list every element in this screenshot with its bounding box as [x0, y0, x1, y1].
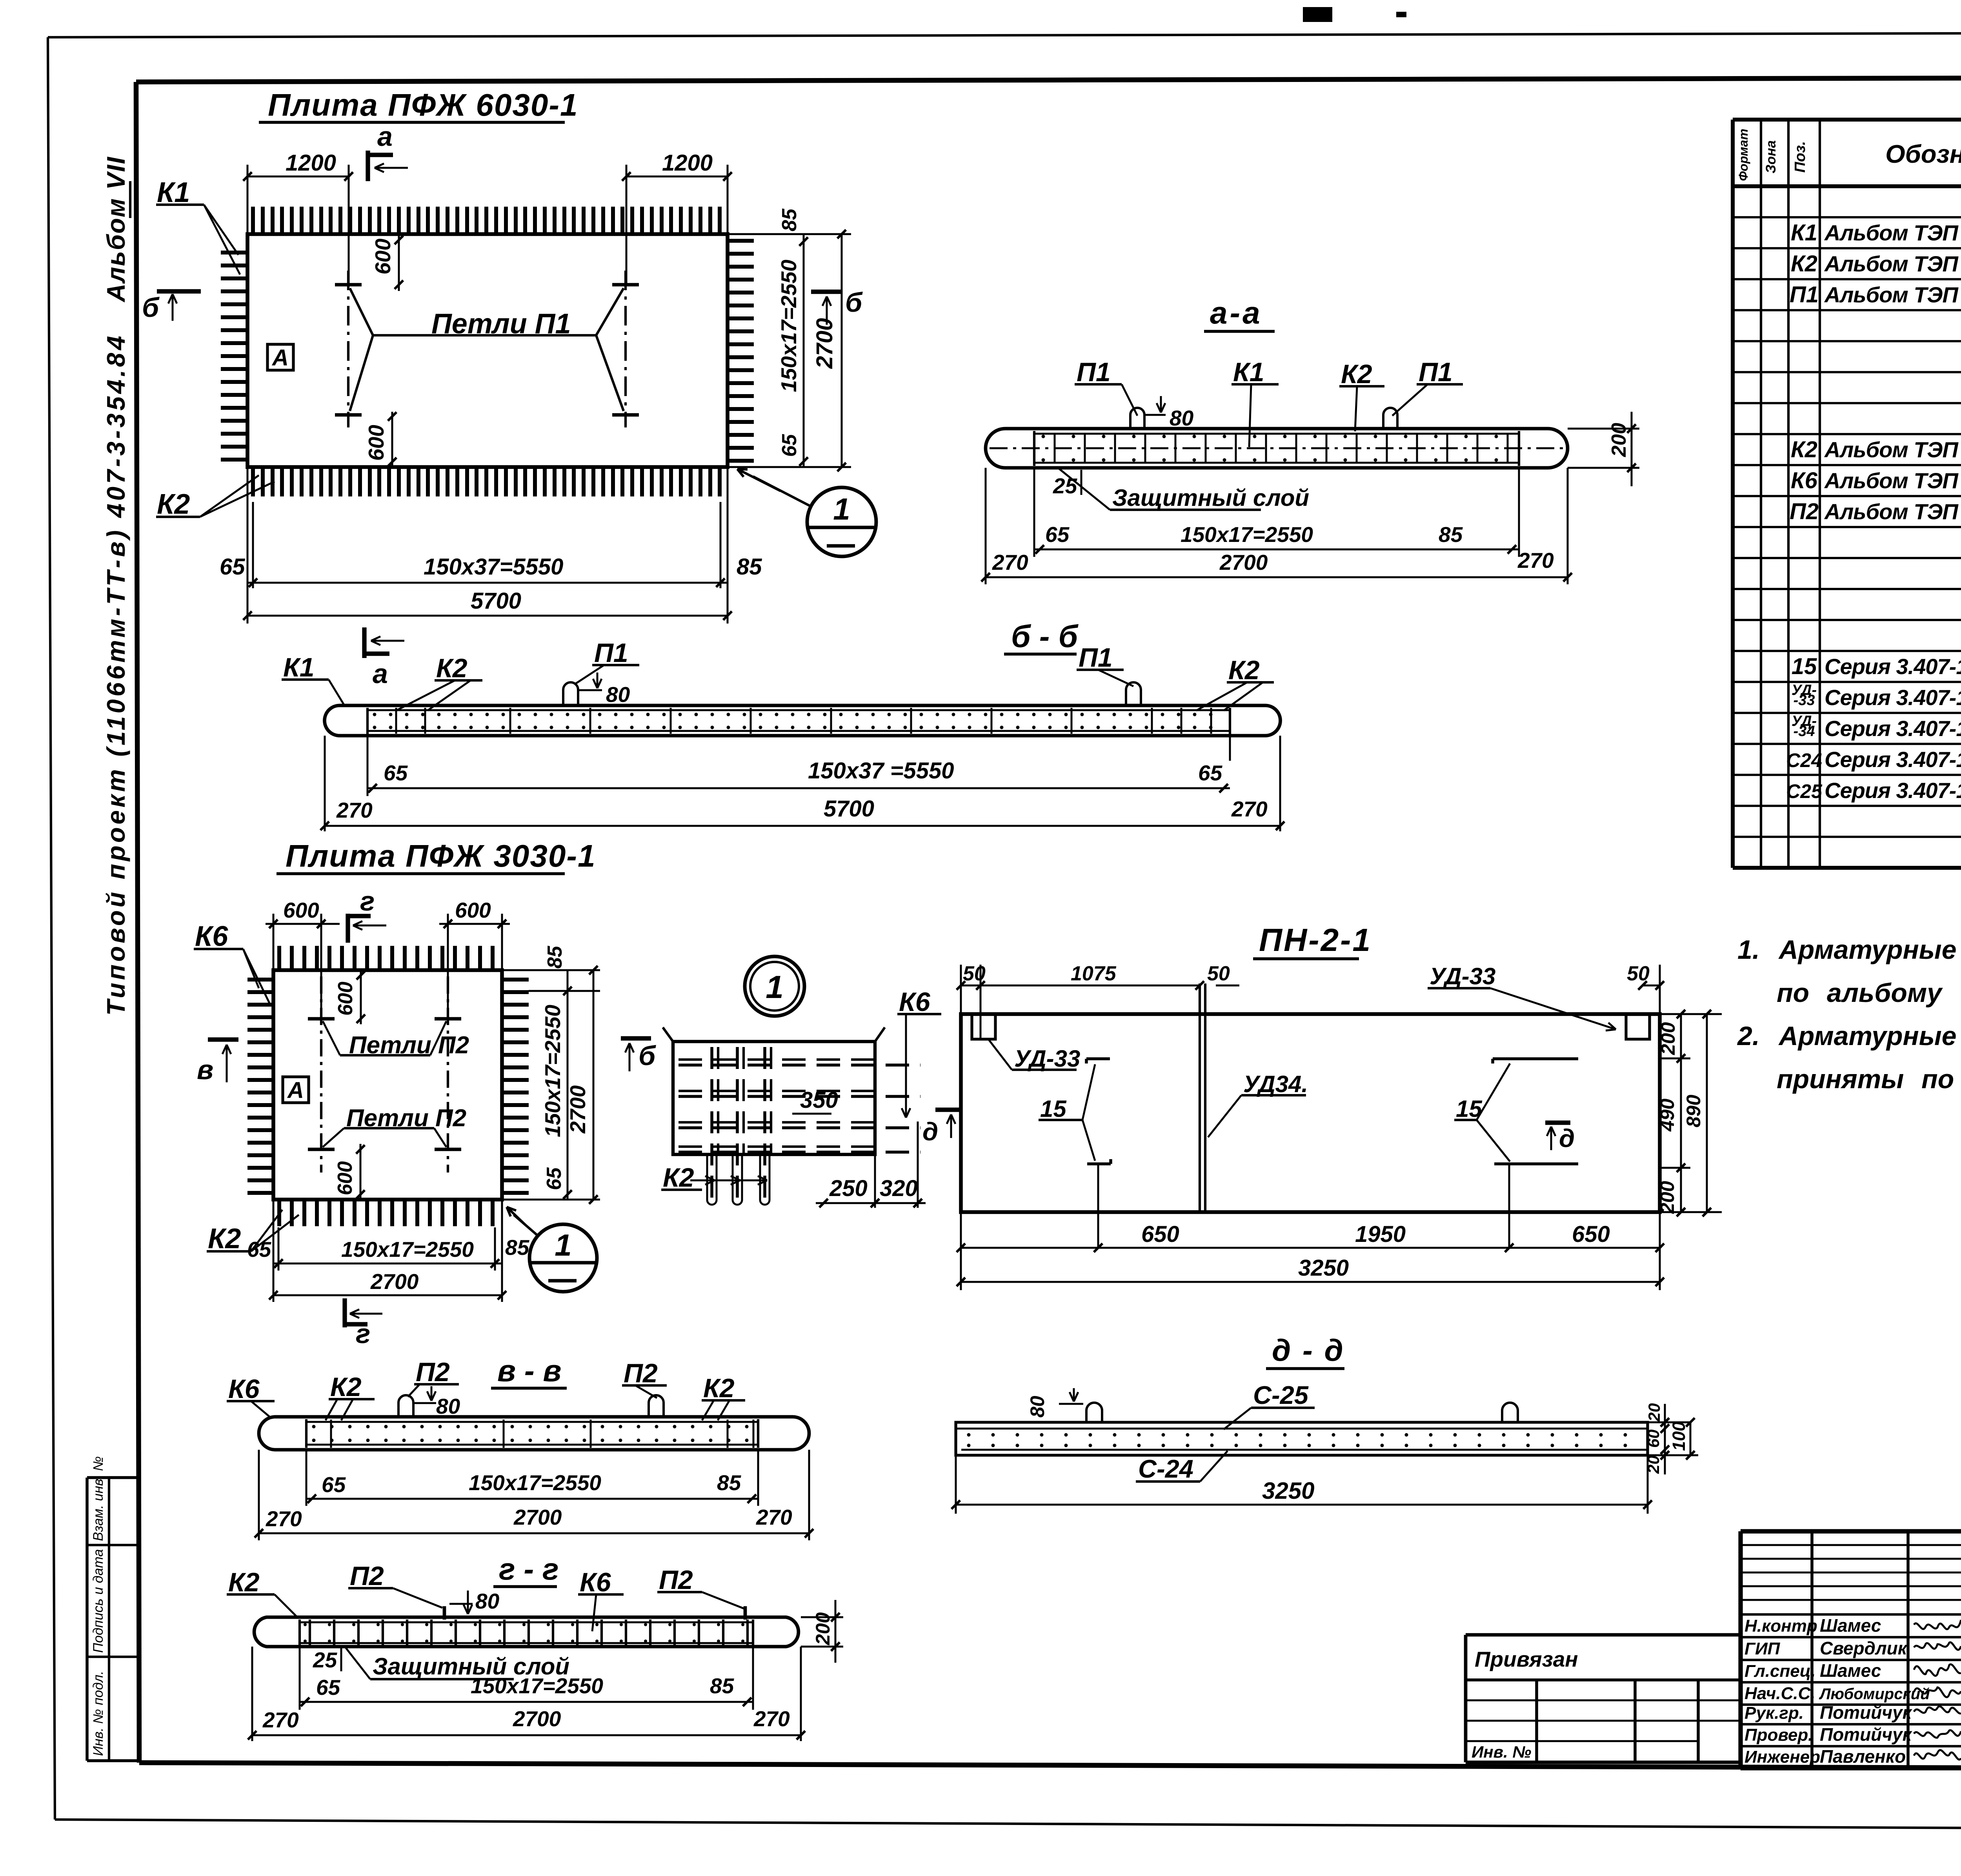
d-d dim 80 left [1059, 1403, 1083, 1405]
dim 600 top [398, 234, 400, 291]
a-a dim 80 [1144, 414, 1166, 416]
svg-text:Зона: Зона [1763, 140, 1779, 173]
svg-text:Формат: Формат [1736, 129, 1750, 181]
svg-text:по альбому ТЭПа № 71147-: по альбому ТЭПа № 71147-С. [1777, 978, 1961, 1008]
svg-text:Инженер: Инженер [1745, 1747, 1820, 1767]
dim 600 mid-bottom [360, 1144, 362, 1200]
svg-text:д: д [1559, 1124, 1575, 1153]
svg-text:Потийчук: Потийчук [1820, 1702, 1913, 1723]
svg-text:К1: К1 [1791, 220, 1817, 245]
svg-text:270: 270 [1231, 797, 1268, 821]
svg-text:Альбом VII: Альбом VII [102, 156, 130, 303]
section mark a top [366, 151, 370, 181]
svg-text:80: 80 [436, 1394, 460, 1418]
detail 1 circle header [745, 956, 804, 1016]
svg-text:1075: 1075 [1071, 962, 1117, 985]
svg-text:65: 65 [220, 554, 245, 580]
svg-text:д: д [922, 1117, 938, 1146]
svg-text:П1: П1 [594, 638, 628, 668]
svg-text:П2: П2 [350, 1561, 384, 1591]
svg-text:Плита ПФЖ 6030-1: Плита ПФЖ 6030-1 [268, 87, 578, 122]
svg-text:Любомирский: Любомирский [1819, 1685, 1930, 1703]
hatch bottom 3030 [277, 1200, 281, 1226]
svg-text:С24: С24 [1786, 749, 1822, 771]
d-d dim 3250 [955, 1455, 957, 1514]
detail circle 1 at 6030 [807, 487, 876, 556]
left margin bottom stamp table [85, 1478, 89, 1761]
svg-text:2700: 2700 [1219, 550, 1268, 574]
a-a bottom dims [1033, 468, 1035, 557]
svg-text:Серия 3.407-102 л.64: Серия 3.407-102 л.64 [1825, 685, 1961, 710]
svg-text:Поз.: Поз. [1792, 141, 1808, 173]
svg-text:К6: К6 [195, 921, 228, 952]
rebar hatch left [221, 251, 247, 254]
svg-text:К2: К2 [1791, 437, 1817, 462]
svg-text:П2: П2 [1790, 499, 1819, 524]
svg-text:Обозначение: Обозначение [1885, 140, 1961, 168]
svg-text:С-24: С-24 [1138, 1454, 1193, 1483]
svg-text:25: 25 [313, 1648, 338, 1672]
svg-text:Серия 3.407-102 л.54: Серия 3.407-102 л.54 [1825, 778, 1961, 803]
svg-text:5700: 5700 [471, 588, 521, 614]
svg-text:г: г [360, 886, 375, 916]
svg-text:270: 270 [753, 1707, 790, 1731]
svg-text:320: 320 [880, 1176, 918, 1201]
svg-text:а: а [373, 658, 388, 689]
svg-text:270: 270 [336, 798, 373, 822]
svg-text:К2: К2 [436, 653, 468, 683]
b-b cage [366, 708, 369, 734]
svg-text:приняты по серии 3. 407-: приняты по серии 3. 407-102. [1777, 1064, 1961, 1094]
PN-2-1 panel [961, 1014, 1660, 1212]
svg-text:1: 1 [766, 969, 784, 1005]
svg-text:600: 600 [371, 238, 395, 274]
svg-text:2700: 2700 [513, 1707, 561, 1731]
g-g loop stubs P2 [443, 1606, 446, 1620]
svg-text:Инв. № подл.: Инв. № подл. [91, 1671, 106, 1756]
svg-text:К2: К2 [1791, 251, 1817, 276]
svg-text:600: 600 [364, 425, 388, 461]
callout petli P2 lower [344, 1127, 434, 1129]
svg-text:А: А [287, 1078, 304, 1103]
svg-text:65: 65 [1045, 522, 1070, 547]
d-d right dims [1648, 1422, 1690, 1423]
right dims 6030 [728, 233, 851, 235]
mark g top [346, 914, 350, 943]
b-b bottom dims [367, 736, 369, 761]
PN-2-1 right dims [1660, 1013, 1722, 1015]
svg-text:1200: 1200 [662, 150, 713, 176]
svg-text:Альбом ТЭП 71147-с, л.18: Альбом ТЭП 71147-с, л.18 [1824, 468, 1961, 493]
mark d left (detail) [935, 1107, 961, 1112]
svg-text:П2: П2 [416, 1357, 450, 1387]
svg-text:Провер.: Провер. [1745, 1725, 1813, 1745]
svg-text:П1: П1 [1419, 357, 1453, 387]
loops P2 axes [320, 976, 322, 1172]
svg-text:200: 200 [1656, 1181, 1678, 1214]
hatch top 3030 [277, 946, 281, 970]
v-v cage [305, 1419, 307, 1448]
mark v right [621, 1036, 651, 1040]
d-d loops [1086, 1403, 1102, 1423]
svg-text:Шамес: Шамес [1820, 1615, 1881, 1636]
g-g dim 80 [449, 1603, 473, 1605]
svg-text:200: 200 [1657, 1022, 1679, 1055]
svg-text:С-25: С-25 [1253, 1381, 1309, 1409]
svg-text:Шамес: Шамес [1820, 1660, 1881, 1681]
loops P1 axes [347, 271, 349, 427]
svg-text:3250: 3250 [1262, 1478, 1314, 1504]
g-g member [254, 1617, 799, 1647]
rebar hatch bottom [251, 467, 255, 496]
svg-text:80: 80 [475, 1589, 500, 1613]
d-d slab [956, 1422, 1648, 1455]
svg-text:85: 85 [1439, 522, 1463, 547]
svg-text:К2: К2 [330, 1372, 362, 1402]
mark b right 6030 [811, 289, 842, 294]
svg-text:Нач.С.С.: Нач.С.С. [1745, 1684, 1815, 1703]
svg-text:К6: К6 [1791, 468, 1818, 493]
svg-text:80: 80 [1026, 1396, 1048, 1418]
svg-text:П1: П1 [1079, 643, 1113, 673]
v-v loops P2 [398, 1395, 413, 1418]
b-b dim 80 [579, 689, 602, 691]
svg-text:85: 85 [778, 208, 801, 231]
svg-text:150х17=2550: 150х17=2550 [1181, 522, 1313, 547]
svg-text:К2: К2 [228, 1567, 260, 1597]
sheet outer border [48, 32, 1961, 37]
svg-text:85: 85 [717, 1471, 742, 1495]
svg-text:П2: П2 [624, 1358, 658, 1388]
rebar hatch top [251, 207, 255, 234]
svg-text:2700: 2700 [370, 1269, 419, 1294]
svg-text:П2: П2 [659, 1565, 693, 1595]
svg-text:270: 270 [262, 1708, 299, 1732]
a-a dim 200 right [1568, 428, 1639, 430]
box A mark 3030 [283, 1077, 309, 1103]
b-b member [325, 705, 1281, 736]
svg-text:20: 20 [1645, 1403, 1663, 1422]
g-g dim 200 right [801, 1616, 843, 1618]
detail 1 body [673, 1042, 875, 1154]
svg-text:Потийчук: Потийчук [1820, 1724, 1913, 1745]
svg-text:270: 270 [992, 550, 1028, 574]
dim 1200 right [626, 165, 628, 285]
svg-text:65: 65 [543, 1167, 566, 1190]
svg-text:150х17=2550: 150х17=2550 [469, 1471, 601, 1495]
v-v dim 80 [415, 1402, 436, 1404]
svg-text:600: 600 [334, 982, 357, 1016]
svg-text:П1: П1 [1077, 357, 1111, 387]
svg-text:УД-33: УД-33 [1014, 1045, 1080, 1072]
svg-text:Типовой проект (11066т: Типовой проект (11066тм-ТТ-в) 407-3-354.… [102, 333, 130, 1016]
svg-text:270: 270 [756, 1505, 792, 1529]
svg-text:350: 350 [800, 1087, 838, 1113]
loops callout [373, 334, 596, 336]
v-v member [259, 1417, 809, 1450]
svg-text:Привязан: Привязан [1475, 1647, 1578, 1671]
svg-text:85: 85 [710, 1674, 735, 1698]
slab PFZh6030 plan [247, 234, 728, 467]
svg-text:Н.контр: Н.контр [1745, 1616, 1817, 1636]
svg-text:б - б: б - б [1011, 619, 1079, 654]
svg-text:Гл.спец.: Гл.спец. [1745, 1661, 1815, 1681]
PN-2-1 top dims [960, 965, 962, 1014]
svg-text:150х37 =5550: 150х37 =5550 [808, 758, 954, 783]
svg-text:К6: К6 [228, 1374, 260, 1404]
a-a member [986, 429, 1568, 468]
svg-text:г: г [356, 1318, 370, 1349]
svg-text:1200: 1200 [286, 150, 336, 176]
PN-2-1 loop bars left [1086, 1057, 1110, 1060]
svg-text:650: 650 [1572, 1222, 1610, 1247]
svg-text:25: 25 [1053, 474, 1078, 498]
g-g bottom dims [299, 1647, 301, 1710]
PN-2-1 vertical ext from loops [1097, 1164, 1099, 1247]
svg-text:50: 50 [1207, 962, 1230, 985]
specification table [1731, 120, 1735, 868]
svg-text:650: 650 [1141, 1222, 1179, 1247]
svg-text:270: 270 [1517, 548, 1554, 573]
svg-text:Павленко: Павленко [1820, 1746, 1906, 1767]
svg-text:Рук.гр.: Рук.гр. [1745, 1703, 1804, 1723]
svg-text:а-а: а-а [1210, 295, 1262, 330]
svg-text:1: 1 [833, 492, 850, 526]
svg-text:К2: К2 [703, 1373, 735, 1403]
svg-text:600: 600 [334, 1161, 357, 1195]
slab PFZh3030 plan [273, 970, 502, 1200]
PN-2-1 center embed UD-34 [1199, 983, 1201, 1211]
svg-text:890: 890 [1683, 1094, 1705, 1127]
a-a loops P1 [1130, 408, 1144, 429]
svg-text:К6: К6 [899, 987, 931, 1017]
svg-text:К2: К2 [663, 1163, 694, 1192]
b-b loops P1 [563, 682, 578, 706]
svg-text:65: 65 [1198, 761, 1223, 785]
svg-text:б: б [845, 287, 863, 318]
svg-text:270: 270 [266, 1507, 302, 1531]
svg-text:80: 80 [606, 682, 630, 707]
bottom dims 6030 [247, 467, 249, 624]
mark g bottom [342, 1298, 347, 1327]
box A mark [267, 344, 293, 370]
dim 600 top-left [273, 914, 275, 970]
svg-text:2700: 2700 [812, 318, 837, 369]
svg-text:600: 600 [283, 898, 319, 922]
svg-text:Серия 3.407-102 л.54: Серия 3.407-102 л.54 [1825, 747, 1961, 772]
svg-text:85: 85 [505, 1235, 530, 1260]
svg-text:490: 490 [1656, 1098, 1678, 1132]
svg-text:5700: 5700 [824, 796, 874, 822]
svg-text:б: б [142, 292, 160, 323]
svg-text:1950: 1950 [1355, 1222, 1406, 1247]
right dims 3030 [502, 969, 600, 971]
title block [1741, 1529, 1961, 1533]
svg-text:Инв. №: Инв. № [1472, 1743, 1531, 1761]
section mark a bottom [362, 627, 366, 658]
svg-text:П1: П1 [1790, 282, 1819, 307]
svg-text:Альбом ТЭП 71147-с, л.15: Альбом ТЭП 71147-с, л.15 [1824, 251, 1961, 276]
svg-text:Петли П2: Петли П2 [349, 1032, 469, 1059]
svg-text:Взам. инв. №: Взам. инв. № [91, 1456, 106, 1541]
svg-text:К2: К2 [157, 489, 190, 520]
svg-text:250: 250 [829, 1176, 868, 1201]
svg-text:г - г: г - г [499, 1552, 559, 1586]
svg-text:2700: 2700 [566, 1085, 590, 1134]
svg-text:К2: К2 [1341, 359, 1372, 389]
svg-text:200: 200 [1608, 423, 1630, 457]
mark d right pn21 [1545, 1120, 1570, 1125]
PN-2-1 bottom dims [960, 1212, 962, 1290]
svg-text:100: 100 [1669, 1422, 1689, 1451]
svg-text:Серия 3.407-102 л.54: Серия 3.407-102 л.54 [1825, 654, 1961, 679]
rebar hatch right [728, 239, 754, 243]
svg-text:К1: К1 [283, 653, 315, 682]
loop crosses 3030 [308, 1017, 335, 1021]
svg-text:85: 85 [737, 554, 762, 580]
svg-text:15: 15 [1792, 654, 1817, 679]
svg-text:2700: 2700 [513, 1505, 562, 1529]
svg-text:ГИП: ГИП [1745, 1639, 1781, 1658]
svg-text:-33: -33 [1794, 692, 1815, 709]
dim 600 top-right [447, 914, 449, 1016]
svg-text:УД-33: УД-33 [1430, 963, 1495, 989]
svg-text:85: 85 [544, 945, 566, 969]
v-v bottom dims [306, 1450, 307, 1506]
privyazan table [1466, 1633, 1741, 1637]
svg-text:150х37=5550: 150х37=5550 [424, 554, 563, 580]
svg-text:50: 50 [963, 962, 986, 985]
svg-text:150х17=2550: 150х17=2550 [540, 1005, 565, 1137]
svg-text:20: 20 [1644, 1455, 1663, 1474]
hatch left 3030 [247, 978, 273, 982]
PN-2-1 loop bars right [1493, 1057, 1578, 1060]
svg-text:К1: К1 [1233, 357, 1264, 387]
drawing frame [136, 77, 1961, 82]
svg-text:в: в [197, 1054, 213, 1085]
svg-text:200: 200 [812, 1612, 834, 1645]
mark v left [208, 1037, 238, 1042]
svg-text:Свердлик: Свердлик [1820, 1638, 1908, 1658]
PN-2-1 notch right UD-33 [1626, 1014, 1650, 1039]
svg-text:15: 15 [1040, 1096, 1067, 1122]
svg-text:150х17=2550: 150х17=2550 [777, 260, 801, 392]
svg-text:Альбом ТЭП 71147-с, л.19: Альбом ТЭП 71147-с, л.19 [1824, 282, 1961, 307]
svg-text:65: 65 [384, 761, 408, 785]
svg-text:в - в: в - в [497, 1353, 562, 1388]
svg-text:Альбом ТЭП 71147-с, л.15: Альбом ТЭП 71147-с, л.15 [1824, 437, 1961, 462]
svg-text:К2: К2 [208, 1223, 241, 1254]
bottom dims 3030 [273, 1200, 275, 1302]
svg-text:Серия 3.407-102 л.64: Серия 3.407-102 л.64 [1825, 716, 1961, 741]
svg-text:65: 65 [778, 434, 801, 457]
svg-text:Петли П2: Петли П2 [346, 1105, 466, 1132]
svg-text:1. Арматурные каркасы пли: 1. Арматурные каркасы плит ПФЖ приняты [1737, 935, 1961, 965]
scanner mark top [1303, 7, 1332, 22]
svg-text:Плита ПФЖ 3030-1: Плита ПФЖ 3030-1 [286, 838, 596, 873]
svg-text:3250: 3250 [1298, 1255, 1349, 1281]
svg-text:2. Арматурные изделия для: 2. Арматурные изделия для плиты ПН-2-1 [1737, 1021, 1961, 1051]
svg-text:65: 65 [247, 1237, 272, 1262]
detail circle 1 at 3030 [529, 1224, 597, 1292]
svg-text:УД34.: УД34. [1243, 1071, 1308, 1097]
loop crosses [335, 283, 362, 287]
svg-text:65: 65 [322, 1472, 346, 1497]
svg-text:Подпись и дата: Подпись и дата [91, 1549, 106, 1653]
svg-text:600: 600 [455, 898, 491, 922]
svg-text:Альбом ТЭП 71147-с, л.19: Альбом ТЭП 71147-с, л.19 [1824, 499, 1961, 524]
g-g cage [298, 1620, 301, 1645]
svg-text:К2: К2 [1228, 655, 1260, 685]
svg-text:65: 65 [316, 1675, 341, 1700]
svg-text:С25: С25 [1786, 780, 1823, 802]
a-a cage [1033, 431, 1035, 466]
svg-text:Петли П1: Петли П1 [431, 308, 571, 340]
svg-text:б: б [639, 1040, 656, 1071]
svg-text:Защитный слой: Защитный слой [1112, 485, 1309, 511]
dim 600 mid [360, 970, 362, 1024]
mark b left [157, 289, 201, 293]
PN-2-1 notch left UD-33 [972, 1014, 995, 1039]
svg-text:60: 60 [1644, 1429, 1663, 1448]
svg-text:80: 80 [1170, 406, 1194, 430]
dim 1200 left [247, 165, 249, 234]
svg-text:А: А [271, 345, 289, 371]
svg-text:ПН-2-1: ПН-2-1 [1259, 922, 1372, 958]
svg-text:Альбом ТЭП 71147-с, л.14: Альбом ТЭП 71147-с, л.14 [1824, 220, 1961, 245]
svg-text:1: 1 [555, 1228, 571, 1262]
detail 1 break line [663, 1027, 673, 1042]
svg-text:К6: К6 [580, 1567, 611, 1597]
svg-text:150х17=2550: 150х17=2550 [341, 1237, 474, 1262]
svg-text:-34: -34 [1794, 723, 1815, 740]
svg-text:150х17=2550: 150х17=2550 [471, 1674, 603, 1698]
svg-text:д - д: д - д [1272, 1333, 1345, 1367]
hatch right 3030 [502, 978, 529, 982]
callout petli P2 upper [340, 1054, 430, 1056]
svg-text:а: а [377, 121, 393, 152]
dim 600 bottom [391, 412, 393, 467]
